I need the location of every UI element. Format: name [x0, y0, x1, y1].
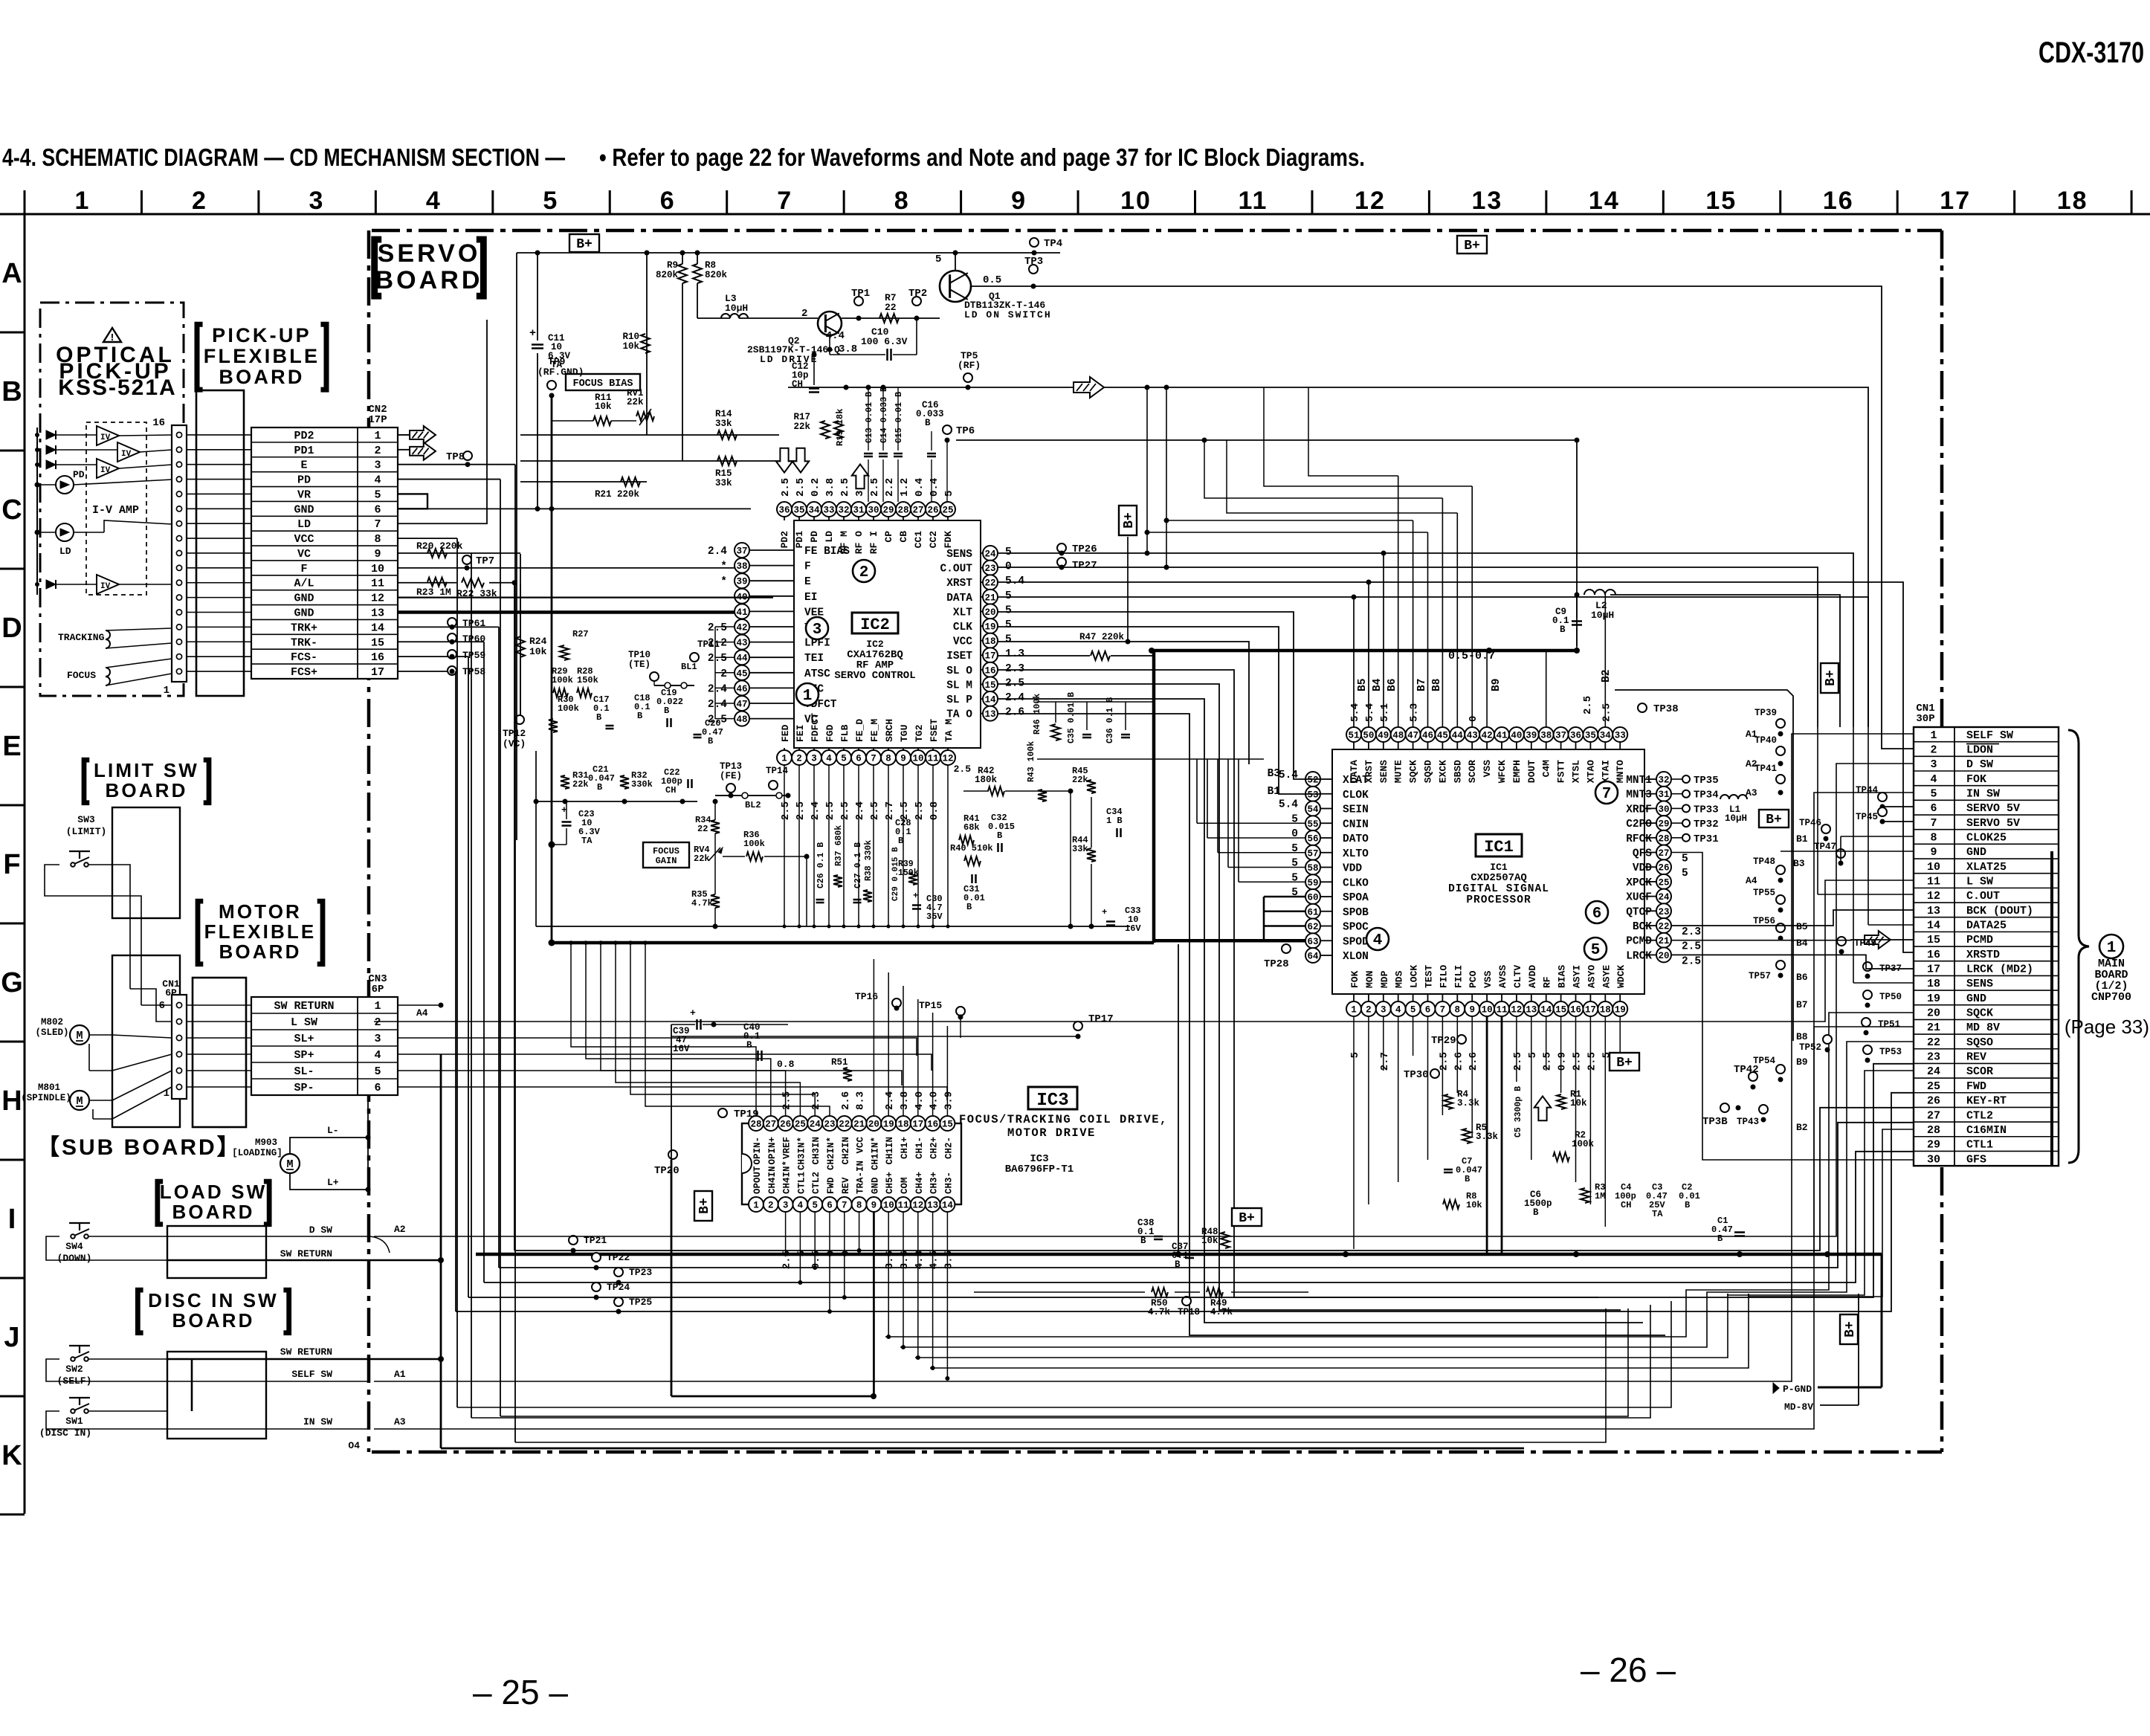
svg-text:B: B	[597, 782, 602, 793]
svg-text:PICK-UP: PICK-UP	[212, 324, 311, 346]
wire A/L row11 with R22	[398, 582, 456, 584]
svg-text:10μH: 10μH	[725, 303, 748, 314]
SL M wire 15	[998, 684, 1621, 1310]
svg-text:A1: A1	[394, 1369, 406, 1380]
svg-text:FOCUS: FOCUS	[67, 670, 96, 681]
svg-text:8: 8	[885, 754, 891, 764]
svg-text:XUGF: XUGF	[1626, 892, 1652, 904]
svg-text:28: 28	[897, 506, 908, 516]
svg-text:BIAS: BIAS	[1557, 965, 1568, 988]
svg-text:R24: R24	[529, 636, 547, 647]
svg-text:DIGITAL SIGNAL: DIGITAL SIGNAL	[1448, 883, 1549, 895]
TRK+ row with TP61	[398, 626, 499, 627]
row12 C.OUT + row14/16/18 wires	[1817, 727, 1818, 894]
svg-text:6: 6	[827, 1201, 833, 1211]
svg-text:B: B	[708, 736, 713, 746]
svg-text:CH4IN: CH4IN	[767, 1166, 778, 1194]
svg-text:(TE): (TE)	[628, 659, 651, 670]
svg-text:8: 8	[894, 187, 910, 215]
svg-text:10k: 10k	[1201, 1236, 1218, 1246]
svg-text:DOUT: DOUT	[1526, 760, 1537, 783]
svg-text:32: 32	[1658, 775, 1669, 786]
svg-text:D SW: D SW	[1966, 758, 1993, 771]
svg-text:22: 22	[839, 1120, 850, 1130]
svg-text:5: 5	[1005, 604, 1012, 616]
svg-text:XLAT25: XLAT25	[1966, 861, 2007, 874]
svg-text:TRA-IN: TRA-IN	[856, 1161, 866, 1194]
svg-text:B5: B5	[1796, 921, 1808, 932]
IC1 right pins 32-20	[1644, 778, 1656, 780]
svg-text:3.3k: 3.3k	[1457, 1098, 1480, 1109]
svg-text:13: 13	[1526, 1005, 1537, 1016]
svg-text:51: 51	[1348, 731, 1359, 741]
svg-text:1: 1	[781, 754, 787, 764]
svg-text:23: 23	[984, 564, 995, 574]
svg-text:22: 22	[1658, 922, 1669, 932]
svg-text:12: 12	[371, 593, 384, 605]
svg-text:3: 3	[374, 459, 381, 472]
FCS- row with TP59	[398, 656, 468, 657]
svg-text:TP40: TP40	[1754, 735, 1777, 746]
svg-text:2.5: 2.5	[1682, 955, 1701, 967]
svg-text:5: 5	[1682, 868, 1688, 880]
svg-text:CTL2: CTL2	[811, 1172, 821, 1194]
svg-text:60: 60	[1307, 893, 1318, 903]
svg-text:52: 52	[1307, 775, 1318, 786]
svg-text:PCMD: PCMD	[1626, 936, 1652, 948]
svg-text:2: 2	[192, 187, 207, 215]
TP52	[1823, 1035, 1832, 1044]
svg-text:R40 510k: R40 510k	[950, 843, 993, 854]
svg-text:18: 18	[1600, 1005, 1611, 1016]
svg-text:BOARD: BOARD	[172, 1201, 255, 1223]
R21 220k wire	[520, 481, 647, 483]
TP55 TP56 TP57	[1776, 895, 1785, 904]
R15 33k + wire	[520, 460, 801, 462]
svg-text:FDK: FDK	[943, 531, 954, 549]
R24 10k	[516, 636, 525, 657]
svg-text:CLOK25: CLOK25	[1966, 832, 2007, 845]
svg-text:B: B	[966, 902, 972, 912]
svg-text:21: 21	[984, 593, 995, 603]
svg-text:GND: GND	[870, 1177, 880, 1194]
svg-text:2.5: 2.5	[1682, 941, 1701, 953]
svg-text:2.4: 2.4	[1005, 692, 1024, 704]
svg-text:BCK (DOUT): BCK (DOUT)	[1966, 905, 2033, 917]
svg-text:SERVO: SERVO	[378, 239, 481, 268]
svg-text:1: 1	[1351, 1005, 1357, 1016]
svg-text:B4: B4	[1796, 938, 1808, 949]
svg-text:TP55: TP55	[1753, 888, 1775, 898]
svg-text:10μH: 10μH	[1591, 610, 1614, 621]
circled 3	[806, 617, 828, 639]
svg-text:20: 20	[984, 607, 995, 618]
svg-text:17: 17	[1940, 187, 1971, 215]
svg-text:B6: B6	[1796, 972, 1808, 983]
svg-text:(RF.GND): (RF.GND)	[537, 367, 584, 378]
svg-text:F: F	[804, 561, 811, 573]
svg-text:L SW: L SW	[291, 1016, 317, 1029]
svg-text:42: 42	[1482, 731, 1493, 741]
svg-text:5: 5	[374, 488, 381, 501]
svg-text:B8: B8	[1796, 1031, 1808, 1042]
svg-text:(SLED): (SLED)	[35, 1027, 68, 1038]
vertical x870 R9	[646, 253, 648, 435]
svg-text:0.4: 0.4	[914, 478, 926, 497]
LD laser diode	[56, 523, 74, 541]
wire under IC3 to right	[974, 1291, 1145, 1293]
D SW wire to A2	[266, 1236, 368, 1237]
wire Q1 out right (LDON)	[971, 286, 1914, 749]
svg-text:29: 29	[1927, 1139, 1940, 1152]
svg-text:FGD: FGD	[824, 724, 836, 742]
svg-text:IC3: IC3	[1036, 1091, 1068, 1111]
svg-text:CH1IN: CH1IN	[885, 1137, 895, 1165]
svg-text:5: 5	[1005, 634, 1012, 646]
svg-text:VDD: VDD	[1343, 863, 1362, 875]
svg-text:M903: M903	[255, 1138, 277, 1148]
svg-text:1: 1	[1930, 729, 1937, 742]
svg-text:C2PO: C2PO	[1626, 819, 1652, 830]
IC1 left wires	[1197, 822, 1305, 824]
svg-text:IV: IV	[100, 582, 111, 591]
TP12 (VC)	[515, 715, 524, 724]
svg-text:B+: B+	[1464, 239, 1480, 254]
svg-text:B: B	[1685, 1200, 1690, 1210]
wire GND row6 right	[398, 508, 751, 509]
SW1 internal link	[191, 1359, 193, 1411]
svg-text:2.2: 2.2	[884, 478, 896, 497]
svg-text:FWD: FWD	[1966, 1080, 1986, 1093]
svg-text:19: 19	[883, 1120, 894, 1130]
svg-text:13: 13	[984, 709, 995, 720]
svg-text:XRDF: XRDF	[1626, 804, 1652, 816]
thick vertical x1552 down to bus 1268	[1152, 651, 1156, 943]
op-amp A2	[117, 442, 140, 462]
svg-text:15: 15	[371, 636, 384, 649]
bottom staircase wires right	[885, 1294, 1686, 1337]
wires strip CN1 to CN3 table	[187, 1004, 251, 1006]
svg-text:LDON: LDON	[1966, 744, 1993, 757]
svg-text:TP20: TP20	[654, 1165, 679, 1177]
svg-text:3: 3	[811, 754, 817, 764]
svg-text:10: 10	[1482, 1005, 1493, 1016]
svg-text:TP48: TP48	[1753, 856, 1775, 867]
svg-text:7: 7	[871, 754, 877, 764]
svg-text:R51: R51	[831, 1057, 848, 1068]
limit board internal wires	[112, 865, 130, 918]
svg-text:B8: B8	[1431, 679, 1443, 691]
svg-text:XTAI: XTAI	[1600, 760, 1611, 783]
svg-text:22k: 22k	[572, 779, 589, 790]
XLT wire 20	[998, 612, 1320, 779]
svg-text:IC2: IC2	[860, 616, 890, 634]
svg-text:SP+: SP+	[294, 1049, 314, 1062]
svg-text:TP51: TP51	[1878, 1019, 1900, 1030]
svg-text:ASYE: ASYE	[1601, 965, 1612, 988]
svg-text:REV: REV	[1966, 1051, 1986, 1064]
svg-text:58: 58	[1307, 863, 1318, 874]
svg-text:TP41: TP41	[1754, 764, 1777, 774]
wires GFS QFS rows	[1671, 853, 1914, 1161]
wire VC row9 to TP12	[398, 552, 520, 554]
FCS+ row with TP58	[398, 671, 456, 672]
svg-text:SQCK: SQCK	[1966, 1007, 1993, 1020]
IC3 bottom pins 1-14	[749, 1197, 764, 1212]
svg-text:11: 11	[1496, 1005, 1507, 1016]
svg-text:WDCK: WDCK	[1615, 965, 1627, 988]
circled 1 main board	[2099, 935, 2123, 958]
svg-text:SELF SW: SELF SW	[1966, 729, 2013, 742]
SW4 DOWN switch	[69, 1222, 90, 1224]
hatched down arrows	[776, 448, 792, 473]
svg-text:10k: 10k	[1570, 1098, 1587, 1109]
svg-text:PD: PD	[809, 531, 820, 543]
svg-text:2.5: 2.5	[795, 801, 807, 820]
svg-text:LD DRIVE: LD DRIVE	[760, 354, 818, 365]
svg-text:4: 4	[426, 187, 442, 215]
svg-text:CC1: CC1	[913, 531, 924, 549]
svg-text:2.5: 2.5	[708, 622, 727, 634]
disc in sw board rect	[167, 1352, 266, 1439]
svg-text:PD1: PD1	[794, 531, 805, 549]
svg-text:XLT: XLT	[953, 607, 972, 619]
svg-text:17P: 17P	[368, 414, 387, 426]
Q1 transistor LD ON SWITCH	[940, 271, 971, 302]
svg-text:TP58: TP58	[462, 666, 485, 677]
svg-text:13: 13	[1471, 187, 1502, 215]
svg-text:FCS-: FCS-	[291, 651, 317, 664]
svg-text:TP59: TP59	[462, 650, 485, 661]
svg-text:REV: REV	[841, 1177, 851, 1194]
svg-text:10k: 10k	[595, 401, 612, 412]
svg-text:SERVO CONTROL: SERVO CONTROL	[834, 670, 915, 682]
svg-text:9: 9	[1011, 187, 1027, 215]
svg-text:33k: 33k	[715, 419, 732, 429]
motor flexible board rect	[193, 978, 246, 1127]
svg-text:B4: B4	[1372, 678, 1384, 691]
svg-text:SPOA: SPOA	[1343, 892, 1369, 904]
svg-text:34: 34	[808, 506, 820, 516]
photodiode D3	[46, 460, 56, 469]
TP6	[943, 425, 952, 434]
svg-text:100k: 100k	[1572, 1139, 1595, 1149]
wire PD2 out + hatch arrow	[398, 434, 413, 436]
svg-text:21: 21	[1927, 1022, 1940, 1034]
svg-text:TP16: TP16	[855, 991, 878, 1002]
R7 22	[879, 314, 899, 323]
svg-text:EMPH: EMPH	[1511, 760, 1523, 783]
R10 10k	[641, 334, 650, 353]
R23 1M	[427, 578, 447, 587]
svg-text:C13 0.01 B: C13 0.01 B	[865, 392, 874, 443]
svg-text:B3: B3	[1793, 858, 1805, 869]
svg-text:SW1: SW1	[65, 1416, 83, 1427]
svg-text:B: B	[997, 830, 1002, 841]
svg-text:15: 15	[1705, 187, 1737, 215]
svg-text:0.9: 0.9	[1557, 1052, 1569, 1071]
svg-text:5.1: 5.1	[1379, 703, 1391, 722]
svg-text:2.6: 2.6	[1453, 1052, 1465, 1071]
svg-text:TP6: TP6	[956, 425, 975, 437]
svg-text:B2: B2	[1796, 1122, 1808, 1133]
svg-text:5: 5	[841, 754, 847, 764]
svg-text:RF I: RF I	[868, 531, 879, 554]
svg-text:30: 30	[868, 506, 879, 516]
svg-text:1: 1	[2107, 940, 2117, 957]
svg-text:(LIMIT): (LIMIT)	[66, 826, 107, 837]
wire GND row12	[398, 597, 773, 598]
svg-text:– 26 –: – 26 –	[1581, 1651, 1676, 1689]
svg-text:100k: 100k	[743, 839, 765, 849]
svg-text:B: B	[1140, 1236, 1146, 1246]
TP28	[1282, 944, 1291, 953]
svg-text:TP17: TP17	[1088, 1013, 1114, 1025]
svg-text:CH1IN*: CH1IN*	[870, 1137, 880, 1170]
pick-up flexible board rect	[196, 390, 244, 696]
svg-text:GND: GND	[294, 607, 314, 620]
svg-text:SQSO: SQSO	[1966, 1036, 1993, 1049]
IC1 bottom pin verticals	[1353, 1016, 1355, 1249]
svg-text:5: 5	[1591, 942, 1601, 959]
svg-text:XLTO: XLTO	[1343, 848, 1369, 860]
svg-text:SW RETURN: SW RETURN	[280, 1346, 332, 1358]
svg-text:31: 31	[853, 506, 864, 516]
svg-text:22k: 22k	[627, 397, 644, 407]
TP38	[1638, 703, 1647, 712]
svg-text:C14 0.033 B: C14 0.033 B	[879, 387, 889, 443]
svg-text:SPOB: SPOB	[1343, 907, 1369, 919]
svg-text:43: 43	[1467, 731, 1478, 741]
svg-text:25: 25	[795, 1120, 806, 1130]
svg-text:63: 63	[1307, 937, 1318, 947]
svg-text:18: 18	[2057, 187, 2088, 215]
svg-text:GAIN: GAIN	[656, 856, 677, 866]
svg-text:5: 5	[1005, 546, 1012, 558]
thick vertical x903 from B+ IC3	[671, 1160, 673, 1396]
B+ rotated mid	[1119, 506, 1137, 535]
svg-text:7: 7	[842, 1201, 848, 1211]
svg-text:D SW: D SW	[309, 1224, 332, 1236]
svg-text:8: 8	[1455, 1005, 1461, 1016]
svg-text:F: F	[3, 849, 20, 880]
svg-text:MUTE: MUTE	[1393, 760, 1404, 783]
svg-text:TP2: TP2	[908, 288, 927, 300]
TP19	[718, 1109, 727, 1117]
svg-text:FOK: FOK	[1966, 773, 1986, 786]
IC1 name box	[1476, 834, 1522, 856]
load sw board rect	[167, 1226, 266, 1278]
svg-text:1: 1	[803, 688, 813, 705]
svg-text:45: 45	[1437, 731, 1448, 741]
svg-text:BA6796FP-T1: BA6796FP-T1	[1005, 1164, 1074, 1175]
svg-text:(Page 33): (Page 33)	[2065, 1016, 2149, 1038]
svg-text:1: 1	[753, 1201, 759, 1211]
svg-text:I: I	[8, 1204, 16, 1235]
svg-text:B+: B+	[1122, 512, 1137, 529]
svg-text:4: 4	[1930, 773, 1937, 786]
svg-text:14: 14	[1589, 187, 1620, 215]
svg-text:C16MIN: C16MIN	[1966, 1124, 2007, 1137]
svg-text:DISC IN SW: DISC IN SW	[148, 1289, 279, 1311]
svg-text:C15 0.01 B: C15 0.01 B	[894, 392, 904, 443]
svg-text:B: B	[1, 376, 22, 407]
wires limit board down to CN1 strip	[129, 918, 131, 989]
circled 1 (ic2)	[796, 683, 819, 706]
svg-text:CNP700: CNP700	[2091, 991, 2131, 1004]
svg-text:3: 3	[1381, 1005, 1386, 1016]
svg-text:2.7: 2.7	[884, 801, 896, 820]
svg-text:K: K	[1, 1440, 22, 1471]
svg-text:TP32: TP32	[1694, 819, 1719, 830]
svg-text:24: 24	[984, 549, 996, 560]
svg-text:TP3B: TP3B	[1702, 1116, 1728, 1128]
svg-text:A/L: A/L	[294, 578, 314, 590]
svg-text:17: 17	[1927, 964, 1940, 976]
svg-text:B7: B7	[1416, 679, 1428, 691]
svg-text:16: 16	[371, 651, 384, 664]
svg-text:7: 7	[1602, 786, 1612, 803]
svg-text:B+: B+	[697, 1198, 712, 1214]
svg-text:23: 23	[824, 1120, 835, 1130]
svg-text:SCOR: SCOR	[1467, 760, 1478, 783]
svg-text:TP18: TP18	[1178, 1307, 1200, 1317]
svg-text:VCC: VCC	[294, 533, 314, 546]
svg-text:55: 55	[1307, 819, 1318, 830]
svg-text:R23 1M: R23 1M	[416, 587, 451, 598]
svg-text:FOCUS BIAS: FOCUS BIAS	[572, 378, 633, 390]
SL O wire 16	[998, 670, 1598, 1297]
svg-text:ISET: ISET	[946, 651, 972, 662]
svg-text:CLKO: CLKO	[1343, 877, 1369, 889]
svg-text:10: 10	[371, 563, 384, 575]
svg-text:6: 6	[1592, 906, 1602, 923]
svg-text:5: 5	[1930, 788, 1937, 801]
thick vertical x2531 to P-GND	[1881, 1254, 1883, 1387]
svg-text:8: 8	[374, 533, 381, 546]
svg-text:VCC: VCC	[953, 636, 972, 648]
svg-text:RF: RF	[1542, 976, 1553, 988]
svg-text:44: 44	[1452, 731, 1464, 741]
svg-text:FWD: FWD	[826, 1177, 836, 1194]
svg-text:8: 8	[1930, 832, 1937, 845]
svg-text:FLB: FLB	[839, 724, 850, 742]
svg-text:QTOP: QTOP	[1626, 906, 1652, 918]
svg-text:820k: 820k	[656, 270, 679, 280]
wire VR row	[398, 494, 427, 509]
svg-text:29: 29	[882, 506, 894, 516]
svg-text:SW RETURN: SW RETURN	[274, 1000, 334, 1013]
svg-text:40: 40	[1511, 731, 1522, 741]
svg-text:22: 22	[984, 578, 995, 589]
op-amp A3	[97, 459, 119, 478]
svg-text:57: 57	[1307, 848, 1318, 859]
IC2 name box	[852, 613, 898, 633]
servo board dash-dot boundary	[369, 230, 1942, 1452]
svg-text:SBSD: SBSD	[1452, 760, 1463, 783]
DATA wire 21	[998, 597, 1868, 727]
svg-text:ASYI: ASYI	[1572, 965, 1583, 988]
svg-text:SL-: SL-	[294, 1065, 314, 1078]
svg-text:23: 23	[1927, 1051, 1940, 1064]
svg-text:10: 10	[883, 1201, 894, 1211]
svg-text:23: 23	[1658, 907, 1669, 917]
IC1 left pins 52-64	[1320, 778, 1332, 780]
svg-text:26: 26	[927, 506, 938, 516]
svg-text:FILO: FILO	[1438, 965, 1449, 988]
circled 4	[1366, 928, 1389, 950]
svg-text:46: 46	[1422, 731, 1433, 741]
